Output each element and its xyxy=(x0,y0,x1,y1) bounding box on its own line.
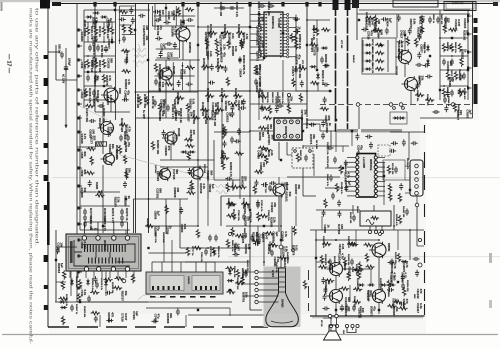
capacitor C402 xyxy=(350,259,354,266)
wire speaker feed xyxy=(323,318,331,332)
label R13265 xyxy=(111,282,113,294)
connector T301 pin 1 xyxy=(368,230,371,233)
wire xyxy=(84,41,115,43)
wire stub xyxy=(78,185,83,188)
wire CRT pin xyxy=(258,271,279,273)
resistor R29172 xyxy=(226,183,229,192)
label R26222 xyxy=(255,35,262,46)
wire xyxy=(316,239,379,241)
diode D202 xyxy=(365,51,372,55)
diode D502 xyxy=(86,279,90,286)
label R22727 xyxy=(121,291,128,302)
diode D850 xyxy=(106,319,113,323)
resistor R17339 xyxy=(324,199,327,208)
resistor R16654 xyxy=(374,15,377,24)
capacitor C3407 xyxy=(322,83,329,87)
wire xyxy=(84,85,112,87)
wire HIC1 bottom lead xyxy=(109,271,111,278)
wire xyxy=(321,216,323,230)
capacitor C6924 xyxy=(322,306,329,310)
label R13646 xyxy=(233,266,236,278)
wire xyxy=(87,271,89,296)
resistor R17105 xyxy=(265,155,268,164)
junction xyxy=(148,91,150,93)
capacitor C305 xyxy=(394,167,398,174)
frame right border xyxy=(472,2,474,107)
wire xyxy=(156,48,179,50)
capacitor C5440 xyxy=(222,151,226,158)
capacitor C807 xyxy=(94,75,98,82)
wire xyxy=(122,34,135,36)
capacitor C15369 xyxy=(275,106,279,113)
resistor R201 xyxy=(375,43,384,46)
capacitor C11756 xyxy=(138,14,145,18)
wire xyxy=(160,159,214,161)
resistor R14910 xyxy=(177,7,180,16)
wire xyxy=(250,130,273,132)
label C4908 xyxy=(323,224,330,233)
capacitor C12708 xyxy=(415,63,422,67)
label R12304 xyxy=(356,278,359,290)
label R21575 xyxy=(294,54,301,65)
label C2137 xyxy=(166,52,173,61)
resistor R21726 xyxy=(320,107,329,110)
wire xyxy=(263,196,265,232)
resistor R23942 xyxy=(363,243,372,246)
CRT grid lead xyxy=(279,276,286,278)
wire T301 leg2 xyxy=(375,226,377,230)
wire stub xyxy=(467,15,472,18)
wire U301 pin17 xyxy=(378,190,386,192)
resistor R29225 xyxy=(237,185,246,188)
resistor R26976 xyxy=(260,107,269,110)
wire xyxy=(160,166,208,168)
transistor Q102 xyxy=(157,67,172,82)
label R3810 xyxy=(216,58,220,73)
label C18974 xyxy=(219,44,226,55)
resistor R106 xyxy=(215,65,224,68)
diode D721 xyxy=(60,306,67,310)
capacitor C15520 xyxy=(309,123,316,127)
wire xyxy=(410,91,412,104)
label R13775 xyxy=(241,268,243,280)
wire HIC1 bottom lead xyxy=(117,271,119,278)
node N420 xyxy=(229,233,232,236)
label C3864 xyxy=(376,30,383,39)
wire xyxy=(80,146,96,148)
resistor R18141 xyxy=(187,151,190,160)
junction xyxy=(182,65,184,67)
resistor R19130 xyxy=(403,287,406,296)
capacitor C103 xyxy=(229,6,236,10)
wire xyxy=(316,261,330,263)
wire HIC2 top lead xyxy=(205,262,207,272)
capacitor C17716 xyxy=(56,247,60,254)
wire xyxy=(185,315,187,327)
module HIC1 terminal xyxy=(82,236,86,240)
label R31980 xyxy=(231,46,238,57)
diode D206 xyxy=(426,59,430,66)
wire jumper xyxy=(347,328,356,333)
wire xyxy=(351,131,353,146)
wire xyxy=(387,40,389,72)
wire xyxy=(343,268,372,270)
resistor R32125 xyxy=(265,232,274,235)
wire xyxy=(310,229,424,231)
resistor R14618 xyxy=(119,10,128,13)
wire HIC2 top lead xyxy=(214,262,216,272)
wire left bus xyxy=(55,230,57,302)
junction xyxy=(378,239,380,241)
IC U301 right pins xyxy=(374,156,377,198)
label B+ xyxy=(142,110,144,119)
wire xyxy=(152,25,195,27)
junction xyxy=(409,229,411,231)
capacitor C804 xyxy=(96,45,100,52)
label R25142 xyxy=(462,30,469,41)
resistor R23556 xyxy=(257,212,260,221)
resistor R17268 xyxy=(254,170,263,173)
label R8069 xyxy=(217,246,220,258)
label C17025 xyxy=(156,171,163,182)
capacitor C15201 xyxy=(300,80,304,87)
resistor R31474 xyxy=(231,227,234,236)
capacitor C206 xyxy=(462,73,466,80)
capacitor C17253 xyxy=(188,168,192,175)
margin caption line 2 xyxy=(35,8,40,246)
label 2SC1815 xyxy=(395,66,397,76)
junction xyxy=(207,247,209,249)
junction xyxy=(439,37,441,39)
node N101 xyxy=(287,93,290,96)
label R24655 xyxy=(397,49,404,60)
label R2832 xyxy=(220,150,224,165)
label R14565 xyxy=(80,188,87,199)
connector SP pin 4 xyxy=(351,324,354,327)
capacitor C6648 xyxy=(399,302,406,306)
wire xyxy=(148,301,232,303)
wire xyxy=(102,102,104,122)
label C8541 xyxy=(294,26,301,35)
resistor R111 xyxy=(215,108,224,111)
resistor R301 xyxy=(339,165,342,174)
frame left tag xyxy=(44,55,49,59)
label R11856 xyxy=(324,254,327,266)
wire U301 pin6 xyxy=(347,181,356,183)
wire stub xyxy=(181,2,184,7)
wire stub xyxy=(78,255,83,258)
wire xyxy=(214,7,244,9)
wire xyxy=(286,142,288,155)
capacitor C13635 xyxy=(446,90,450,97)
resistor R18019 xyxy=(185,144,194,147)
junction xyxy=(335,239,337,241)
connector SP pin 3 xyxy=(345,324,348,327)
resistor R26808 xyxy=(299,93,302,102)
wire xyxy=(359,9,470,11)
label R14436 xyxy=(80,134,87,145)
module M101 bottom pins xyxy=(277,134,300,138)
label 2SD613 xyxy=(343,262,345,271)
label C5850 xyxy=(180,224,187,233)
wire xyxy=(152,261,215,263)
wire xyxy=(336,318,338,325)
label R25461 xyxy=(448,77,455,88)
label R31846 xyxy=(171,26,178,37)
label C5506 xyxy=(154,211,161,220)
resistor R811 xyxy=(94,59,97,68)
CRT base arc xyxy=(271,321,293,323)
wire xyxy=(207,199,209,226)
diode D448 xyxy=(323,64,330,68)
junction xyxy=(443,85,445,87)
label CRT type xyxy=(281,299,284,308)
capacitor C3063 xyxy=(230,104,234,111)
pencil mark xyxy=(213,185,229,188)
resistor R29802 xyxy=(365,265,374,268)
wire xyxy=(249,180,251,196)
wire xyxy=(180,247,250,249)
capacitor C123 xyxy=(234,243,238,250)
label R2380 xyxy=(156,140,160,155)
label C19369 xyxy=(268,241,275,252)
CRT socket pin 1 xyxy=(255,270,258,273)
capacitor C405 xyxy=(352,305,356,312)
resistor R15011 xyxy=(185,8,194,11)
diode D401 xyxy=(358,283,365,287)
wire stub xyxy=(78,271,83,274)
capacitor C2771 xyxy=(253,71,260,75)
wire IC pin 19 xyxy=(289,27,296,29)
label R23101 xyxy=(285,191,292,202)
diode D203 xyxy=(365,59,372,63)
label R11130 xyxy=(391,163,393,175)
capacitor C306 xyxy=(352,215,356,222)
label R1914 xyxy=(103,208,107,223)
resistor R401 xyxy=(322,242,331,245)
label R4175 xyxy=(220,88,224,103)
wire xyxy=(56,281,66,283)
wire xyxy=(307,90,332,92)
node N1376 xyxy=(122,279,126,283)
label R11912 xyxy=(333,256,335,268)
label C15177 xyxy=(291,66,298,77)
label C465 xyxy=(80,152,87,159)
resistor R22421 xyxy=(114,277,123,280)
capacitor C6748 xyxy=(323,287,327,294)
label R14178 xyxy=(275,262,278,273)
pencil diagonal xyxy=(76,104,108,120)
wire xyxy=(315,196,317,230)
capacitor C6513 xyxy=(387,288,394,292)
label R9114 xyxy=(373,22,376,33)
capacitor C4871 xyxy=(337,211,341,218)
resistor R142 xyxy=(258,146,267,149)
node N380 xyxy=(309,150,312,153)
label R11226 xyxy=(406,158,409,170)
label R3168 xyxy=(158,78,162,93)
frame section divider xyxy=(420,117,473,119)
CRT socket pin 3 xyxy=(255,282,258,285)
scan tone 2 xyxy=(80,4,420,314)
capacitor C810 xyxy=(119,135,123,142)
label C14611 xyxy=(124,90,131,100)
frame right tag xyxy=(474,27,478,33)
resistor R122 xyxy=(296,153,299,162)
wire xyxy=(250,309,262,311)
capacitor C13020 xyxy=(415,82,419,89)
wire xyxy=(135,233,137,272)
resistor R804 xyxy=(110,26,113,35)
inductor L801 xyxy=(96,142,107,146)
label R13920 xyxy=(267,244,269,255)
label C13861 xyxy=(91,36,98,47)
label C16202 xyxy=(237,100,244,111)
label C18501 xyxy=(262,232,269,243)
capacitor C9667 xyxy=(208,81,215,85)
capacitor C208 xyxy=(443,97,447,104)
frame left tag xyxy=(44,143,49,148)
pencil mark xyxy=(135,44,140,67)
module HIC1 trace xyxy=(74,240,135,266)
wire U301 pin10 xyxy=(378,157,386,159)
wire CRT pin xyxy=(258,295,279,297)
capacitor C8251 xyxy=(261,183,268,187)
wire xyxy=(325,187,343,189)
wire xyxy=(185,261,250,263)
wire xyxy=(279,231,316,233)
wire arrow xyxy=(64,125,67,128)
frame right dashed border xyxy=(424,289,426,301)
capacitor C17449 xyxy=(187,187,194,191)
label IC U101 xyxy=(271,16,275,29)
junction xyxy=(221,66,223,68)
wire xyxy=(84,9,150,11)
resistor R30466 xyxy=(387,280,390,289)
frame right tag xyxy=(474,84,478,104)
label R6634 xyxy=(281,92,284,104)
wire xyxy=(362,44,364,46)
junction xyxy=(357,284,359,286)
resistor R32304 xyxy=(252,239,261,242)
wire xyxy=(125,230,127,234)
transistor Q103 xyxy=(270,183,285,198)
label R7409 xyxy=(267,210,270,221)
junction xyxy=(197,225,199,227)
capacitor C113 xyxy=(260,105,264,112)
label R142 xyxy=(83,20,87,33)
IC U101 body xyxy=(264,12,283,56)
capacitor C2966 xyxy=(242,99,246,106)
label R27621 xyxy=(204,32,211,43)
label C3716 xyxy=(366,31,373,40)
wire IC pin 11 xyxy=(250,46,258,48)
resistor R215 xyxy=(425,98,434,101)
pencil mark xyxy=(134,55,146,58)
resistor R20679 xyxy=(86,147,95,150)
capacitor C12451 xyxy=(381,17,388,21)
wire xyxy=(278,142,280,160)
label GND xyxy=(413,294,415,299)
wire xyxy=(440,69,468,71)
resistor R813 xyxy=(102,74,105,83)
wire xyxy=(258,104,260,120)
wire xyxy=(149,252,187,254)
resistor R501 xyxy=(78,279,81,288)
label 2SC1815 xyxy=(98,118,100,128)
label C18656 xyxy=(272,231,279,242)
resistor R208 xyxy=(450,43,453,52)
label C7807 xyxy=(466,109,473,118)
resistor R17919 xyxy=(184,138,193,141)
resistor R118 xyxy=(290,33,293,42)
wire xyxy=(154,75,194,77)
connector J2 pin 4 xyxy=(415,185,419,189)
CRT tube bell xyxy=(266,268,298,327)
capacitor C813 xyxy=(83,215,87,222)
junction xyxy=(103,41,105,43)
label R6402 xyxy=(271,92,274,103)
resistor R117 xyxy=(254,65,257,74)
capacitor C503 xyxy=(70,305,74,312)
label R25612 xyxy=(91,17,98,28)
capacitor C5038 xyxy=(399,183,403,190)
resistor R18224 xyxy=(222,128,225,137)
resistor R128 xyxy=(186,247,189,256)
label C801 xyxy=(58,44,60,54)
capacitor C406 xyxy=(340,305,344,312)
resistor R20829 xyxy=(85,171,94,174)
IC U101 left pins xyxy=(258,13,264,57)
wire box top xyxy=(221,195,279,197)
capacitor C4677 xyxy=(337,200,341,207)
label C18136 xyxy=(344,306,351,317)
resistor R213 xyxy=(458,88,461,97)
wire xyxy=(229,266,231,280)
module T301 body xyxy=(360,211,391,226)
label R22268 xyxy=(124,196,131,207)
capacitor C114 xyxy=(277,104,284,108)
label R28108 xyxy=(173,99,180,110)
CRT socket pin 4 xyxy=(255,288,258,291)
capacitor C7979 xyxy=(88,180,92,187)
transistor Q202 xyxy=(402,76,418,92)
label C2264 xyxy=(206,51,213,60)
label C732 xyxy=(80,290,87,297)
label R13128 xyxy=(100,278,102,291)
wire T301 leg1 xyxy=(369,226,371,230)
label R5954 xyxy=(310,38,314,53)
label R12645 xyxy=(353,296,356,308)
wire HIC1 bottom lead xyxy=(93,271,95,278)
capacitor C805 xyxy=(104,46,108,53)
label R29316 xyxy=(57,263,64,274)
capacitor C601 xyxy=(270,250,274,257)
label R11401 xyxy=(402,206,405,218)
label R1129 xyxy=(96,90,100,103)
capacitor C814 xyxy=(83,221,87,228)
wire xyxy=(84,71,115,73)
label C4559 xyxy=(259,162,266,171)
wire xyxy=(303,123,320,125)
wire xyxy=(104,191,120,193)
module M101 body xyxy=(274,118,302,140)
diode D805 xyxy=(189,150,196,154)
wire xyxy=(56,246,77,248)
wire xyxy=(214,131,250,133)
label C14234 xyxy=(93,76,100,87)
label HIC2 xyxy=(187,276,190,285)
